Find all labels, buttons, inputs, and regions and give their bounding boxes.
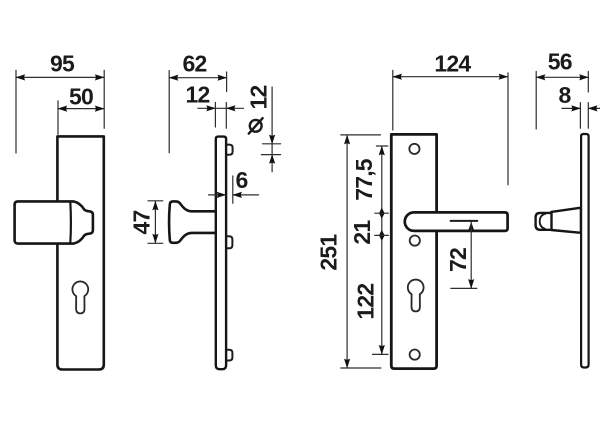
backplate 1 outline [57, 136, 103, 369]
chain junction tick at 213 [375, 212, 389, 214]
chain junction tick at 235 [375, 234, 389, 236]
dimension 72 line [470, 222, 472, 288]
backplate 4 outline (side strip) [581, 134, 589, 368]
svg-text:124: 124 [434, 50, 471, 76]
dimension 12 line [198, 107, 244, 109]
dimension dia 12 arrows (outside) [269, 135, 275, 145]
dimension 95/50 extension line right [103, 70, 105, 128]
lever 4 grip end-cap arc [540, 214, 546, 230]
svg-text:72: 72 [445, 248, 471, 272]
dimension 47 extension ticks [148, 201, 163, 244]
dimension 77,5 top tick [376, 145, 387, 147]
dimension 8 line [562, 107, 600, 109]
dimension 56 arrows [536, 74, 546, 80]
svg-text:6: 6 [236, 167, 248, 193]
svg-text:12: 12 [246, 86, 272, 110]
dimension dia 12 extension ticks [261, 144, 280, 155]
chain junction arrows at 235 [379, 230, 385, 241]
backplate 2 pin bump bottom [225, 350, 232, 361]
diameter symbol [249, 118, 263, 133]
dimension 6 line [209, 194, 259, 196]
dimension 56 extension lines [536, 72, 588, 130]
knob 1 (front projection) [15, 201, 93, 243]
dimension 50 arrows [58, 106, 68, 112]
lever 4 neck (side) [551, 208, 581, 233]
dimension 62 extension line left [168, 71, 170, 153]
dimension 124 arrows [392, 74, 402, 80]
dimension 50 extension line left [57, 101, 59, 134]
dimension 47 arrows [152, 201, 158, 211]
svg-text:77,5: 77,5 [351, 158, 377, 201]
backplate 2 outline (side strip) [216, 137, 226, 370]
dimension 124 line [393, 76, 508, 78]
dimension 8 extension lines [580, 103, 588, 129]
svg-text:12: 12 [186, 81, 210, 107]
dimension 6 arrows (outside) [217, 192, 227, 198]
dimension 47 line [154, 201, 156, 243]
dimension 122 bottom tick [373, 353, 389, 355]
svg-text:8: 8 [559, 82, 572, 108]
knob 2 (side profile) [169, 201, 216, 242]
dimension 77,5 top arrow [379, 146, 385, 156]
dimension 62 extension line right [226, 72, 228, 92]
dimension 251 extension ticks [341, 135, 381, 368]
svg-text:95: 95 [50, 50, 75, 76]
svg-text:21: 21 [349, 220, 375, 245]
svg-text:122: 122 [352, 284, 378, 320]
screw hole middle [410, 236, 420, 246]
screw hole top [409, 144, 419, 154]
dimension 12 arrows (outside) [206, 105, 216, 111]
svg-text:56: 56 [548, 49, 572, 75]
dimension 12 extension lines [215, 103, 226, 129]
dimension dia 12 line [271, 87, 273, 172]
dimension 8 arrows (outside) [571, 105, 581, 111]
dimension 50 line [58, 108, 104, 110]
keyhole (euro cylinder) plate 1 [72, 281, 88, 313]
dimension 62 line [169, 77, 226, 79]
svg-text:50: 50 [69, 84, 93, 110]
dimension 72 bottom arrow [468, 279, 474, 289]
svg-text:47: 47 [128, 211, 154, 235]
dimension 72 top arrow [468, 222, 474, 231]
backplate 2 pin bump top [225, 145, 233, 155]
dimension 251 line [346, 135, 348, 368]
dimension 56 line [536, 76, 588, 78]
dimension 122 bottom arrow [379, 345, 385, 355]
knob 1 flange line [69, 202, 72, 244]
dimension 124 extension lines [393, 70, 508, 185]
screw hole bottom [410, 350, 420, 360]
dimension 95 extension line left [15, 70, 17, 153]
lever handle (front) [405, 212, 508, 231]
backplate 3 outline [391, 134, 436, 368]
dimension 251 arrows [344, 135, 350, 145]
keyhole (euro cylinder) plate 3 [408, 280, 424, 312]
svg-text:62: 62 [183, 50, 207, 76]
chain junction arrows at 213 [379, 208, 385, 219]
svg-text:251: 251 [315, 234, 341, 271]
dimension 95 arrows [16, 74, 26, 80]
dimension 95 line [16, 76, 104, 78]
lever axis extension line [451, 220, 478, 222]
backplate 2 follower bump middle [225, 236, 232, 248]
dimension 62 arrows [169, 75, 179, 81]
dimension 6 extension line [232, 176, 234, 203]
dimension 72 bottom tick [451, 287, 477, 289]
dimension chain 77,5 / 21 / 122 line [381, 146, 383, 354]
lever 4 grip (side) [536, 213, 552, 230]
